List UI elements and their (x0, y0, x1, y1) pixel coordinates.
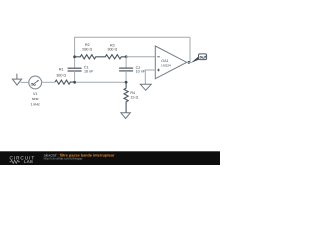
svg-text:V1: V1 (33, 92, 38, 96)
label C2 10 nF (136, 66, 146, 74)
op-amp OA1 (155, 46, 186, 79)
node minus input junction (125, 55, 128, 58)
resistor R1 (55, 80, 75, 84)
svg-text:sine: sine (32, 97, 39, 101)
label V1 sine 1 kHz (30, 92, 40, 106)
wire ground to source (20, 81, 28, 83)
wire to op-amp inverting input (126, 56, 155, 58)
footer bar (0, 151, 220, 165)
wire left vertical upper (74, 37, 76, 68)
svg-text:10 nF: 10 nF (84, 69, 94, 73)
svg-text:R2: R2 (85, 43, 90, 47)
wire C2 vertical upper (125, 57, 127, 68)
svg-text:OA1: OA1 (161, 59, 168, 63)
label C1 10 nF (84, 65, 94, 73)
node R2 left junction (73, 55, 76, 58)
net flag out (191, 54, 207, 63)
svg-text:300 Ω: 300 Ω (107, 48, 117, 52)
resistor R3 (101, 55, 127, 59)
wire op-amp non-inverting input (145, 70, 155, 84)
wire C2 vertical lower (125, 71, 127, 82)
voltage source V1 (29, 76, 42, 89)
svg-text:LAB: LAB (24, 159, 33, 164)
wire top feedback rail (75, 36, 190, 38)
svg-text:http://circuitlab.com/c/bmgap: http://circuitlab.com/c/bmgap (44, 157, 83, 161)
footer logo CIRCUIT LAB (10, 155, 36, 164)
node R4 top junction (125, 81, 128, 84)
label R2 590 ohm (82, 43, 92, 52)
wire source to R1 (42, 81, 55, 83)
svg-text:LM324: LM324 (161, 63, 171, 67)
wire feedback vertical to output (189, 37, 191, 62)
svg-text:15 Ω: 15 Ω (130, 96, 138, 100)
svg-text:R4: R4 (130, 91, 135, 95)
resistor R4 (124, 82, 128, 113)
wire bottom rail (75, 81, 127, 83)
footer title text (44, 154, 115, 161)
label R1 300 ohm (56, 68, 66, 78)
svg-text:10 nF: 10 nF (136, 70, 146, 74)
svg-text:1 kHz: 1 kHz (30, 102, 40, 106)
ground op-amp plus (140, 84, 151, 90)
capacitor C1 (68, 68, 82, 71)
svg-text:300 Ω: 300 Ω (56, 73, 66, 77)
capacitor C2 (119, 68, 133, 71)
ground source (12, 74, 21, 86)
node output junction (188, 61, 191, 64)
node C1 bottom junction (73, 81, 76, 84)
svg-text:R1: R1 (59, 68, 64, 72)
label R4 15 ohm (130, 91, 138, 99)
label R3 300 ohm (107, 43, 117, 51)
wire left vertical lower (74, 71, 76, 82)
ground R4 (121, 113, 130, 119)
resistor R2 (75, 55, 101, 59)
label OA1 LM324 (161, 59, 171, 67)
svg-text:590 Ω: 590 Ω (82, 47, 92, 51)
wire output to flag (187, 61, 192, 63)
